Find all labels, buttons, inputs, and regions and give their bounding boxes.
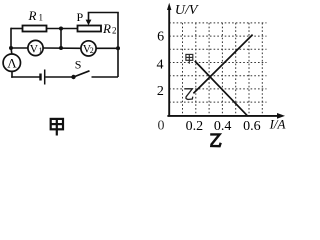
svg-text:1: 1 xyxy=(39,46,43,55)
wire junction down from R1-R2 node xyxy=(60,29,62,49)
svg-text:I/A: I/A xyxy=(269,117,286,132)
wire ammeter down xyxy=(11,71,13,78)
switch S xyxy=(71,75,75,79)
node left junction xyxy=(9,46,13,50)
grid vertical dashed lines xyxy=(183,23,263,115)
grid horizontal dashed lines xyxy=(169,23,266,102)
slider arrow P on R2 xyxy=(88,13,90,21)
svg-text:0.6: 0.6 xyxy=(243,119,261,134)
svg-text:R: R xyxy=(28,8,37,23)
svg-text:1: 1 xyxy=(39,13,44,23)
line yi falling xyxy=(195,61,248,116)
svg-text:2: 2 xyxy=(157,84,164,99)
y-axis U/V xyxy=(168,8,170,117)
small yi label on graph xyxy=(185,89,193,100)
svg-text:0: 0 xyxy=(158,118,165,133)
svg-text:S: S xyxy=(75,58,82,72)
svg-text:6: 6 xyxy=(157,29,164,44)
ammeter A xyxy=(3,54,20,71)
wire junction to V1 xyxy=(11,47,28,49)
wire right vertical xyxy=(117,13,119,78)
node junction mid xyxy=(59,46,63,50)
wire battery to switch xyxy=(46,76,74,78)
node junction R1-R2 xyxy=(59,27,63,31)
wire R1 to R2 xyxy=(47,28,78,30)
line jia rising xyxy=(193,35,252,94)
wire V2 to right xyxy=(96,47,118,49)
x-axis I/A xyxy=(167,115,279,117)
svg-text:Λ: Λ xyxy=(7,56,17,71)
svg-text:0.4: 0.4 xyxy=(214,119,232,134)
svg-text:2: 2 xyxy=(112,26,117,36)
wire left vertical xyxy=(10,28,12,48)
battery cell xyxy=(39,74,41,81)
wire junction to ammeter xyxy=(10,48,13,54)
resistor R1 xyxy=(23,26,47,32)
svg-text:R: R xyxy=(102,21,111,36)
svg-text:2: 2 xyxy=(90,46,94,55)
svg-text:4: 4 xyxy=(157,58,164,73)
wire top-left horizontal xyxy=(11,28,23,30)
caption yi (big, below axis) xyxy=(210,134,221,146)
svg-text:P: P xyxy=(77,10,84,24)
small jia label on graph xyxy=(186,54,193,63)
svg-text:V: V xyxy=(30,43,39,55)
wire bottom to battery xyxy=(11,76,39,78)
caption jia (CJK drawn as path) xyxy=(51,119,63,136)
voltmeter V1 xyxy=(28,40,43,55)
svg-text:/V: /V xyxy=(184,3,199,18)
wire V1 to V2 xyxy=(43,47,81,49)
voltmeter V2 xyxy=(81,41,96,56)
node right junction xyxy=(116,46,120,50)
svg-text:0.2: 0.2 xyxy=(186,119,204,134)
wire slider to right xyxy=(88,12,119,14)
rheostat R2 xyxy=(78,26,102,32)
